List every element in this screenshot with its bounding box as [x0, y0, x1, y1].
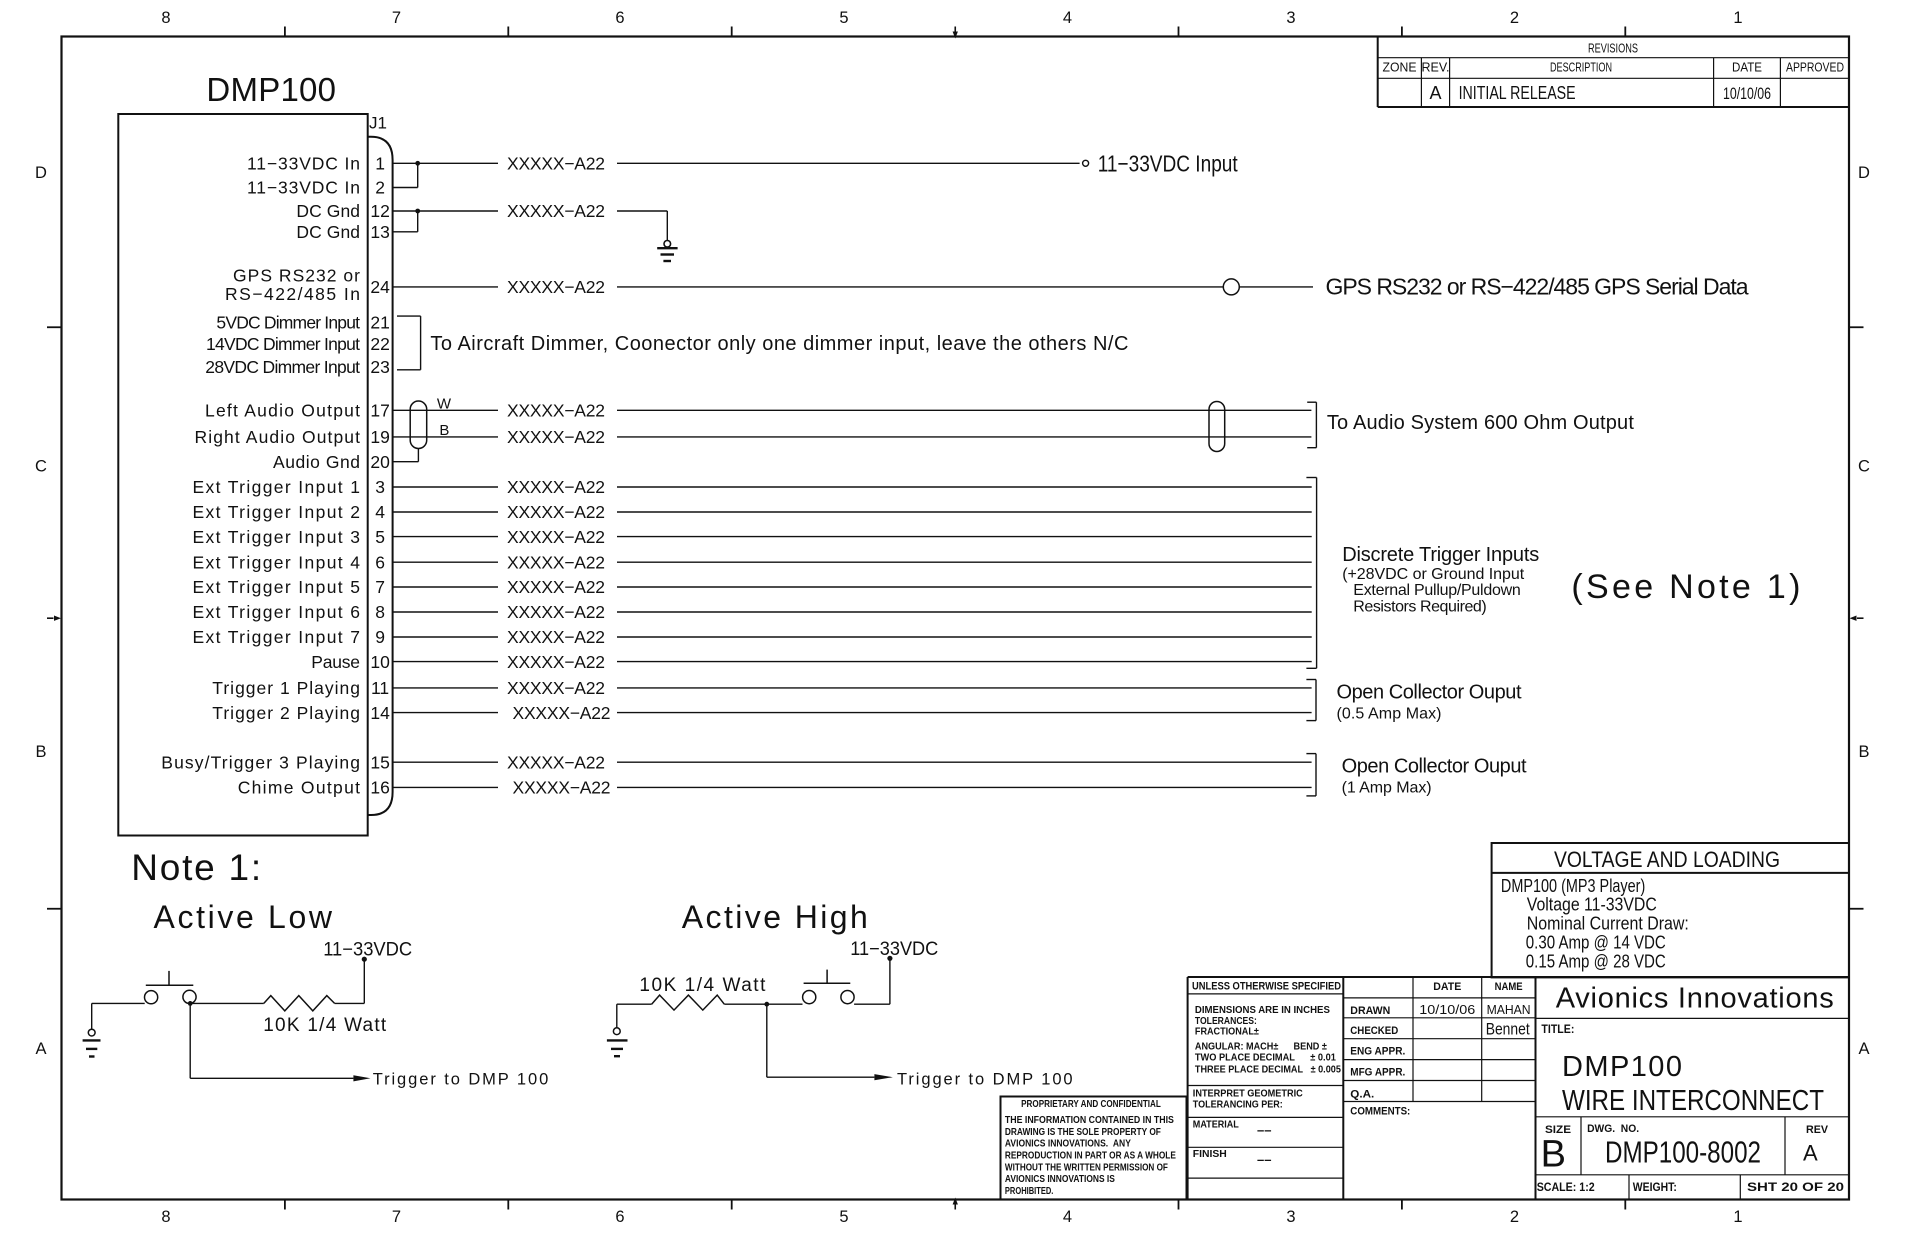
svg-text:MAHAN: MAHAN — [1487, 1002, 1531, 1017]
svg-text:Bennet: Bennet — [1486, 1020, 1530, 1039]
wire trigger output (active high) — [767, 1004, 875, 1077]
svg-text:11−33VDC: 11−33VDC — [323, 940, 412, 961]
svg-text:GPS RS232 or RS−422/485 GPS Se: GPS RS232 or RS−422/485 GPS Serial Data — [1326, 273, 1749, 299]
label open collector output 0.5A — [1337, 682, 1522, 723]
svg-text:Ext Trigger Input 5: Ext Trigger Input 5 — [193, 577, 361, 597]
svg-text:REVISIONS: REVISIONS — [1588, 41, 1638, 56]
junction pins 1-2 — [415, 161, 420, 166]
svg-text:Right Audio Output: Right Audio Output — [195, 427, 361, 447]
svg-text:C: C — [35, 457, 47, 475]
wire pin 10 trigger — [393, 661, 1312, 663]
svg-text:10K 1/4 Watt: 10K 1/4 Watt — [263, 1015, 387, 1036]
svg-text:REV.: REV. — [1422, 61, 1450, 75]
pin 14 (Trigger 2 Playing) — [212, 703, 390, 723]
svg-text:DC Gnd: DC Gnd — [296, 222, 360, 242]
pin 20 (Audio Gnd) — [273, 452, 390, 472]
svg-text:5: 5 — [375, 527, 385, 547]
title block — [1188, 977, 1849, 1200]
svg-text:4: 4 — [1063, 1208, 1072, 1226]
svg-text:To Aircraft Dimmer, Coonector: To Aircraft Dimmer, Coonector only one d… — [430, 333, 1128, 355]
svg-text:10/10/06: 10/10/06 — [1723, 84, 1771, 103]
pin 6 (Ext Trigger Input 4) — [193, 552, 385, 572]
svg-text:Ext Trigger Input 2: Ext Trigger Input 2 — [193, 502, 361, 522]
svg-text:11−33VDC In: 11−33VDC In — [247, 178, 360, 198]
svg-text:DRAWING IS THE SOLE PROPERTY O: DRAWING IS THE SOLE PROPERTY OF — [1005, 1127, 1161, 1138]
svg-text:7: 7 — [392, 1208, 401, 1226]
svg-text:Voltage 11-33VDC: Voltage 11-33VDC — [1527, 895, 1657, 915]
wire pin 3 trigger — [393, 486, 1312, 488]
svg-text:(+28VDC or Ground Input: (+28VDC or Ground Input — [1342, 566, 1525, 583]
svg-text:Q.A.: Q.A. — [1350, 1089, 1374, 1101]
svg-text:APPROVED: APPROVED — [1786, 61, 1844, 75]
svg-text:XXXXX−A22: XXXXX−A22 — [507, 427, 605, 447]
svg-text:FINISH: FINISH — [1193, 1148, 1227, 1160]
svg-text:XXXXX−A22: XXXXX−A22 — [507, 477, 605, 497]
svg-text:20: 20 — [370, 452, 390, 472]
svg-text:(0.5 Amp Max): (0.5 Amp Max) — [1337, 705, 1442, 722]
pin 10 (Pause) — [311, 652, 390, 672]
svg-text:PROPRIETARY AND CONFIDENTIAL: PROPRIETARY AND CONFIDENTIAL — [1021, 1099, 1161, 1110]
svg-text:14VDC Dimmer Input: 14VDC Dimmer Input — [206, 334, 360, 354]
pin 11 (Trigger 1 Playing) — [212, 678, 389, 698]
svg-text:––: –– — [1257, 1122, 1271, 1137]
svg-text:REV: REV — [1806, 1124, 1829, 1136]
svg-text:B: B — [439, 422, 449, 439]
pin 3 (Ext Trigger Input 1) — [193, 477, 385, 497]
wire pin 1 power input — [393, 162, 1080, 164]
node GPS serial data (circle) — [1223, 279, 1239, 295]
svg-text:Busy/Trigger 3 Playing: Busy/Trigger 3 Playing — [161, 752, 360, 772]
svg-text:Ext Trigger Input 1: Ext Trigger Input 1 — [193, 477, 361, 497]
bracket to audio system — [1307, 402, 1316, 448]
svg-text:REPRODUCTION IN PART OR AS A W: REPRODUCTION IN PART OR AS A WHOLE — [1005, 1150, 1176, 1161]
svg-text:0.30 Amp @ 14 VDC: 0.30 Amp @ 14 VDC — [1526, 933, 1666, 953]
svg-text:Open Collector Ouput: Open Collector Ouput — [1337, 682, 1522, 704]
svg-text:9: 9 — [375, 627, 385, 647]
wire ground to resistor (active high) — [617, 1003, 652, 1005]
svg-text:3: 3 — [1286, 1208, 1295, 1226]
resistor 10K 1/4 Watt (active low) — [264, 996, 335, 1011]
twisted pair shield symbol (audio side) — [1209, 402, 1225, 452]
wire pin 16 output — [393, 786, 1312, 788]
svg-text:GPS RS232 or: GPS RS232 or — [233, 266, 360, 286]
bracket open collector 1A — [1306, 754, 1316, 796]
wire pin 12 dc ground — [393, 211, 668, 241]
junction trigger tap (active low) — [188, 1001, 193, 1006]
svg-text:A: A — [35, 1040, 46, 1058]
svg-text:D: D — [35, 164, 47, 182]
svg-text:(See Note 1): (See Note 1) — [1571, 568, 1800, 606]
svg-text:15: 15 — [370, 752, 389, 772]
svg-text:WIRE INTERCONNECT: WIRE INTERCONNECT — [1562, 1085, 1824, 1117]
svg-text:24: 24 — [370, 277, 390, 297]
svg-text:WITHOUT THE WRITTEN PERMISSION: WITHOUT THE WRITTEN PERMISSION OF — [1005, 1162, 1168, 1173]
proprietary and confidential note — [1001, 1097, 1187, 1200]
pin 12 (DC Gnd) — [296, 201, 389, 221]
junction pins 12-13 — [415, 209, 420, 214]
svg-text:DESCRIPTION: DESCRIPTION — [1550, 61, 1612, 75]
svg-text:XXXXX−A22: XXXXX−A22 — [507, 277, 605, 297]
svg-text:Avionics Innovations: Avionics Innovations — [1556, 982, 1834, 1014]
svg-text:11−33VDC: 11−33VDC — [850, 939, 938, 960]
ground symbol (DC Gnd net) — [657, 241, 677, 262]
svg-text:THREE PLACE DECIMAL ± 0.005: THREE PLACE DECIMAL ± 0.005 — [1195, 1064, 1341, 1076]
bracket discrete trigger inputs — [1306, 478, 1316, 669]
svg-text:AVIONICS INNOVATIONS. ANY: AVIONICS INNOVATIONS. ANY — [1005, 1139, 1131, 1150]
svg-text:Chime Output: Chime Output — [238, 778, 360, 798]
bracket open collector 0.5A — [1306, 680, 1316, 721]
arrow trigger to DMP 100 (active low) — [353, 1075, 370, 1081]
svg-text:NAME: NAME — [1495, 981, 1523, 993]
svg-text:Ext Trigger Input 3: Ext Trigger Input 3 — [193, 527, 361, 547]
svg-text:1: 1 — [1733, 9, 1742, 27]
svg-text:DMP100: DMP100 — [1562, 1051, 1682, 1083]
power node 11-33VDC (active high) — [850, 939, 938, 961]
svg-text:Pause: Pause — [311, 652, 360, 672]
resistor 10K 1/4 Watt (active high) — [652, 995, 725, 1010]
wire pin 2 jumper — [393, 163, 418, 187]
svg-text:B: B — [35, 743, 46, 761]
svg-text:1: 1 — [1733, 1208, 1742, 1226]
svg-text:––: –– — [1257, 1152, 1271, 1167]
twisted pair shield symbol (connector side) — [410, 401, 427, 449]
svg-text:Active Low: Active Low — [154, 899, 333, 935]
label open collector output 1A — [1342, 756, 1527, 797]
svg-text:7: 7 — [392, 9, 401, 27]
svg-text:(1 Amp Max): (1 Amp Max) — [1342, 780, 1432, 797]
svg-text:1: 1 — [375, 154, 385, 174]
svg-text:8: 8 — [161, 9, 170, 27]
svg-text:6: 6 — [615, 1208, 624, 1226]
bracket dimmer inputs (pins 21-23) — [397, 316, 421, 370]
pin 23 (28VDC Dimmer Input) — [205, 357, 390, 377]
wire pin 9 trigger — [393, 636, 1312, 638]
svg-text:22: 22 — [370, 334, 389, 354]
pin 15 (Busy/Trigger 3 Playing) — [161, 752, 390, 772]
wire pin 4 trigger — [393, 511, 1312, 513]
wire ground to switch (active low) — [92, 1003, 145, 1029]
svg-text:0.15 Amp @ 28 VDC: 0.15 Amp @ 28 VDC — [1526, 951, 1666, 971]
svg-text:XXXXX−A22: XXXXX−A22 — [507, 678, 605, 698]
svg-text:External Pullup/Puldown: External Pullup/Puldown — [1353, 582, 1521, 599]
pin 4 (Ext Trigger Input 2) — [193, 502, 386, 522]
svg-text:5: 5 — [839, 1208, 848, 1226]
wire pin 6 trigger — [393, 561, 1312, 563]
svg-text:XXXXX−A22: XXXXX−A22 — [507, 201, 605, 221]
svg-text:Audio Gnd: Audio Gnd — [273, 452, 360, 472]
svg-text:7: 7 — [375, 577, 385, 597]
svg-text:21: 21 — [370, 313, 389, 333]
svg-text:XXXXX−A22: XXXXX−A22 — [507, 627, 605, 647]
svg-text:Note 1:: Note 1: — [131, 847, 261, 888]
wire pin 17 left audio — [393, 409, 1312, 411]
wire pin 15 output — [393, 761, 1312, 763]
svg-text:3: 3 — [375, 477, 385, 497]
node 11-33VDC Input — [1083, 150, 1239, 176]
pin 17 (Left Audio Output) — [205, 401, 390, 421]
svg-text:10/10/06: 10/10/06 — [1419, 1002, 1475, 1017]
svg-text:Nominal Current Draw:: Nominal Current Draw: — [1527, 914, 1689, 934]
svg-text:4: 4 — [375, 502, 385, 522]
svg-text:10K 1/4 Watt: 10K 1/4 Watt — [639, 975, 766, 996]
svg-text:Discrete Trigger Inputs: Discrete Trigger Inputs — [1342, 544, 1539, 566]
svg-text:Ext Trigger Input 4: Ext Trigger Input 4 — [193, 552, 361, 572]
connector J1 outline — [368, 137, 393, 815]
arrow trigger to DMP 100 (active high) — [874, 1074, 892, 1080]
wire resistor to switch (active high) — [724, 1003, 802, 1005]
svg-text:ZONE: ZONE — [1383, 61, 1417, 75]
svg-text:Open Collector Ouput: Open Collector Ouput — [1342, 756, 1527, 778]
pin 9 (Ext Trigger Input 7) — [193, 627, 385, 647]
svg-text:A: A — [1858, 1040, 1869, 1058]
svg-text:11−33VDC In: 11−33VDC In — [247, 154, 360, 174]
svg-text:XXXXX−A22: XXXXX−A22 — [507, 602, 605, 622]
svg-text:19: 19 — [370, 427, 389, 447]
svg-text:3: 3 — [1286, 9, 1295, 27]
wire switch to power (active high) — [854, 958, 890, 1004]
power node 11-33VDC (active low) — [323, 940, 412, 1004]
svg-text:Left Audio Output: Left Audio Output — [205, 401, 360, 421]
svg-text:5: 5 — [839, 9, 848, 27]
svg-text:VOLTAGE AND LOADING: VOLTAGE AND LOADING — [1554, 847, 1780, 872]
wire pin 19 right audio — [393, 436, 1312, 438]
pin 16 (Chime Output) — [238, 778, 390, 798]
svg-text:MATERIAL: MATERIAL — [1193, 1118, 1240, 1130]
svg-text:ENG APPR.: ENG APPR. — [1350, 1046, 1405, 1058]
svg-text:PROHIBITED.: PROHIBITED. — [1005, 1186, 1054, 1197]
pin 7 (Ext Trigger Input 5) — [193, 577, 385, 597]
wire switch to resistor (active low) — [190, 1002, 264, 1004]
svg-text:MFG APPR.: MFG APPR. — [1350, 1067, 1405, 1079]
pushbutton switch (active high) — [803, 970, 855, 1004]
svg-text:A: A — [1803, 1141, 1818, 1166]
svg-text:THE INFORMATION CONTAINED IN T: THE INFORMATION CONTAINED IN THIS — [1005, 1115, 1174, 1126]
svg-text:Resistors Required): Resistors Required) — [1353, 599, 1486, 616]
svg-text:DWG. NO.: DWG. NO. — [1587, 1123, 1639, 1135]
svg-text:SCALE: 1:2: SCALE: 1:2 — [1537, 1180, 1595, 1194]
pin 2 (11−33VDC In) — [247, 178, 385, 198]
ground symbol (active high) — [607, 1004, 628, 1056]
wire pin 24 gps serial — [393, 286, 1313, 288]
voltage and loading table — [1492, 843, 1849, 977]
svg-text:17: 17 — [370, 401, 389, 421]
wire pin 14 trigger playing — [393, 712, 1312, 714]
svg-text:DRAWN: DRAWN — [1350, 1005, 1390, 1017]
svg-text:B: B — [1858, 743, 1869, 761]
svg-text:UNLESS OTHERWISE SPECIFIED: UNLESS OTHERWISE SPECIFIED — [1192, 980, 1341, 992]
svg-text:Trigger 2 Playing: Trigger 2 Playing — [212, 703, 360, 723]
wire pin 8 trigger — [393, 611, 1312, 613]
svg-text:RS−422/485 In: RS−422/485 In — [225, 284, 360, 304]
svg-text:W: W — [437, 395, 452, 412]
wire pin 20 audio shield — [393, 449, 419, 462]
svg-text:10: 10 — [370, 652, 390, 672]
ground symbol (active low) — [83, 1029, 101, 1056]
svg-text:DATE: DATE — [1433, 981, 1461, 993]
svg-text:B: B — [1541, 1133, 1566, 1175]
wire pin 7 trigger — [393, 586, 1312, 588]
label discrete trigger inputs — [1342, 544, 1539, 616]
svg-text:DMP100 (MP3 Player): DMP100 (MP3 Player) — [1501, 876, 1645, 896]
svg-text:XXXXX−A22: XXXXX−A22 — [507, 577, 605, 597]
pin 1 (11−33VDC In) — [247, 154, 385, 174]
svg-text:28VDC Dimmer Input: 28VDC Dimmer Input — [205, 357, 360, 377]
svg-text:C: C — [1858, 457, 1870, 475]
svg-text:2: 2 — [375, 178, 385, 198]
svg-text:Ext Trigger Input 6: Ext Trigger Input 6 — [193, 602, 361, 622]
pin 8 (Ext Trigger Input 6) — [193, 602, 385, 622]
svg-text:DATE: DATE — [1732, 61, 1762, 75]
svg-text:16: 16 — [370, 778, 389, 798]
svg-text:CHECKED: CHECKED — [1350, 1025, 1398, 1037]
component DMP100 box — [118, 114, 367, 836]
wire trigger output (active low) — [190, 1003, 353, 1078]
svg-text:INITIAL RELEASE: INITIAL RELEASE — [1459, 83, 1576, 103]
svg-text:XXXXX−A22: XXXXX−A22 — [513, 778, 611, 798]
pin 22 (14VDC Dimmer Input) — [206, 334, 390, 354]
svg-text:11: 11 — [371, 678, 389, 698]
wire pin 11 trigger playing — [393, 687, 1312, 689]
svg-text:XXXXX−A22: XXXXX−A22 — [507, 752, 605, 772]
revisions table — [1378, 37, 1849, 108]
svg-text:XXXXX−A22: XXXXX−A22 — [507, 652, 605, 672]
wire pin 13 jumper — [393, 211, 418, 232]
svg-text:6: 6 — [375, 552, 385, 572]
svg-text:XXXXX−A22: XXXXX−A22 — [507, 552, 605, 572]
pin 19 (Right Audio Output) — [195, 427, 390, 447]
revision A row — [1429, 83, 1771, 103]
svg-text:TWO PLACE DECIMAL ± 0.01: TWO PLACE DECIMAL ± 0.01 — [1195, 1052, 1336, 1064]
svg-text:Active High: Active High — [682, 899, 868, 935]
svg-text:XXXXX−A22: XXXXX−A22 — [507, 527, 605, 547]
svg-text:To Audio System 600 Ohm Output: To Audio System 600 Ohm Output — [1327, 412, 1634, 434]
svg-text:AVIONICS INNOVATIONS IS: AVIONICS INNOVATIONS IS — [1005, 1174, 1115, 1185]
svg-text:COMMENTS:: COMMENTS: — [1350, 1105, 1410, 1117]
junction trigger tap (active high) — [764, 1002, 769, 1007]
svg-text:XXXXX−A22: XXXXX−A22 — [507, 401, 605, 421]
svg-text:Ext Trigger Input 7: Ext Trigger Input 7 — [193, 627, 361, 647]
svg-text:14: 14 — [370, 703, 390, 723]
svg-text:2: 2 — [1510, 1208, 1519, 1226]
svg-text:8: 8 — [375, 602, 385, 622]
svg-text:11−33VDC Input: 11−33VDC Input — [1098, 150, 1239, 176]
svg-text:13: 13 — [370, 222, 389, 242]
svg-text:A: A — [1429, 83, 1441, 103]
wire pin 5 trigger — [393, 536, 1312, 538]
svg-text:D: D — [1858, 164, 1870, 182]
svg-text:DMP100: DMP100 — [206, 71, 336, 108]
svg-text:2: 2 — [1510, 9, 1519, 27]
pin 21 (5VDC Dimmer Input) — [216, 313, 389, 333]
svg-text:XXXXX−A22: XXXXX−A22 — [513, 703, 611, 723]
svg-text:J1: J1 — [369, 113, 387, 132]
pin 13 (DC Gnd) — [296, 222, 389, 242]
svg-text:XXXXX−A22: XXXXX−A22 — [507, 502, 605, 522]
svg-text:WEIGHT:: WEIGHT: — [1633, 1180, 1677, 1194]
wire resistor to power (active low) — [335, 1002, 365, 1004]
svg-text:TOLERANCING PER:: TOLERANCING PER: — [1193, 1098, 1283, 1110]
pushbutton switch (active low) — [145, 971, 197, 1004]
pin 24 (GPS RS232 or RS-422/485 In) — [225, 266, 390, 305]
svg-text:XXXXX−A22: XXXXX−A22 — [507, 154, 605, 174]
svg-text:8: 8 — [161, 1208, 170, 1226]
svg-text:TITLE:: TITLE: — [1541, 1022, 1574, 1036]
svg-text:FRACTIONAL±: FRACTIONAL± — [1195, 1026, 1259, 1038]
pin 5 (Ext Trigger Input 3) — [193, 527, 385, 547]
svg-text:12: 12 — [370, 201, 389, 221]
svg-text:23: 23 — [370, 357, 389, 377]
svg-text:4: 4 — [1063, 9, 1072, 27]
svg-text:6: 6 — [615, 9, 624, 27]
svg-text:5VDC Dimmer Input: 5VDC Dimmer Input — [216, 313, 360, 333]
svg-text:DMP100-8002: DMP100-8002 — [1605, 1134, 1761, 1169]
svg-text:SHT 20 OF 20: SHT 20 OF 20 — [1747, 1180, 1844, 1194]
svg-text:DC Gnd: DC Gnd — [296, 201, 360, 221]
svg-text:Trigger 1 Playing: Trigger 1 Playing — [212, 678, 360, 698]
